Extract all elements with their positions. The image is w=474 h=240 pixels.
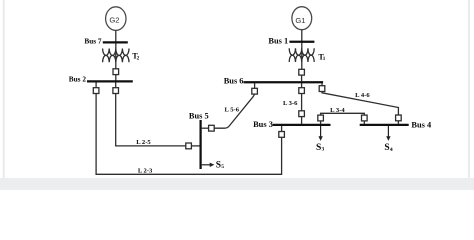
wire Bus 2 drop right — [115, 82, 117, 88]
breaker square line L2-5 Bus5 end — [186, 143, 192, 149]
breaker square T2 — [113, 69, 119, 75]
svg-text:4: 4 — [390, 147, 393, 153]
bus bar Bus 7 — [103, 41, 128, 43]
svg-text:L 5-6: L 5-6 — [225, 106, 240, 113]
right page-edge line — [468, 0, 470, 190]
svg-text:Bus 1: Bus 1 — [268, 37, 288, 46]
breaker square line L3-6 Bus6 end — [299, 88, 305, 94]
breaker square line L2-3 Bus3 end — [279, 132, 285, 138]
svg-text:L 3-4: L 3-4 — [330, 107, 345, 114]
transformer T1 winding secondary — [289, 55, 314, 62]
svg-text:S: S — [216, 160, 221, 170]
svg-text:G1: G1 — [295, 16, 305, 25]
transformer T1 winding primary — [289, 48, 314, 55]
load arrow S5 — [202, 163, 215, 167]
breaker square line L2-5 Bus2 end — [113, 88, 119, 94]
svg-text:Bus 7: Bus 7 — [84, 37, 102, 46]
wire line L 3-4 horizontal run — [321, 113, 365, 115]
svg-text:5: 5 — [221, 164, 224, 170]
wire L2-3 breaker to Bus 3 — [281, 124, 283, 132]
breaker square line L4-6 Bus4 end — [396, 115, 402, 121]
wire L5-6 breaker to Bus 6 — [254, 83, 256, 88]
generator G2 — [106, 7, 126, 31]
bus bar Bus 6 — [244, 81, 324, 83]
wire G2 to T2 — [115, 30, 117, 69]
svg-text:1: 1 — [323, 56, 326, 62]
transformer T2 winding primary — [103, 49, 129, 56]
wire line L 5-6 diagonal run — [214, 94, 254, 128]
wire Bus 3 to L3-4 breaker — [320, 121, 322, 124]
load arrow S4 — [386, 126, 390, 141]
left page-edge line — [3, 0, 5, 190]
breaker square line L5-6 Bus5 end — [209, 125, 215, 131]
bus bar Bus 2 — [87, 80, 133, 82]
wire Bus 5 to L5-6 breaker — [202, 127, 209, 129]
generator G1 — [292, 7, 312, 30]
svg-text:L 4-6: L 4-6 — [355, 92, 370, 99]
svg-text:Bus 5: Bus 5 — [189, 112, 209, 121]
wire Bus 6 to L4-6 breaker — [321, 83, 323, 86]
bus bar Bus 3 — [273, 124, 331, 126]
svg-text:2: 2 — [137, 55, 140, 61]
wire L3-4 breaker to Bus 4 — [363, 121, 365, 124]
wire L3-6 breaker to Bus 3 — [301, 117, 303, 124]
breaker square line L4-6 Bus6 end — [319, 86, 325, 92]
breaker square line L2-3 Bus2 end — [93, 88, 99, 94]
svg-text:L 3-6: L 3-6 — [283, 100, 298, 107]
svg-text:Bus 3: Bus 3 — [253, 120, 273, 129]
load arrow S3 — [318, 126, 322, 141]
label S4 — [384, 143, 393, 153]
bus bar Bus 5 — [199, 120, 201, 169]
wire breaker to Bus 6 — [301, 75, 303, 81]
wire line L 2-5 vertical and horizontal run — [116, 94, 186, 146]
svg-text:L 2-5: L 2-5 — [136, 139, 151, 146]
transformer T2 winding secondary — [103, 55, 129, 62]
svg-text:Bus 4: Bus 4 — [411, 120, 432, 129]
wire L2-5 breaker to Bus 5 — [191, 145, 199, 147]
page background — [0, 0, 474, 190]
wire breaker to Bus 2 — [115, 75, 117, 81]
label S3 — [316, 143, 325, 153]
wire G1 to T1 — [301, 30, 303, 70]
svg-text:3: 3 — [322, 147, 325, 153]
wire line L 3-6 vertical run — [301, 94, 303, 111]
breaker square line L3-4 Bus4 end — [362, 115, 368, 121]
svg-text:L 2-3: L 2-3 — [138, 168, 153, 175]
svg-text:G2: G2 — [109, 16, 119, 25]
bus bar Bus 1 — [289, 41, 314, 43]
breaker square T1 — [299, 69, 305, 75]
bottom grey margin — [0, 178, 474, 190]
breaker square line L3-6 Bus3 end — [299, 111, 305, 117]
bus bar Bus 4 — [360, 124, 409, 126]
label S5 — [216, 160, 225, 170]
label T2 — [132, 52, 139, 62]
wire line L 2-3 left leg and bottom run — [96, 94, 282, 175]
svg-text:S: S — [384, 143, 389, 153]
wire line L 4-6 diagonal run — [322, 92, 398, 116]
wire L4-6 breaker to Bus 4 — [397, 121, 399, 124]
svg-text:S: S — [316, 143, 321, 153]
svg-text:Bus 6: Bus 6 — [224, 77, 244, 86]
wire Bus 2 drop left — [95, 82, 97, 88]
breaker square line L5-6 Bus6 end — [252, 88, 258, 94]
wire Bus 6 to L3-6 breaker — [301, 83, 303, 88]
breaker square line L3-4 Bus3 end — [318, 115, 324, 121]
svg-text:Bus 2: Bus 2 — [69, 74, 87, 83]
label T1 — [318, 52, 325, 62]
